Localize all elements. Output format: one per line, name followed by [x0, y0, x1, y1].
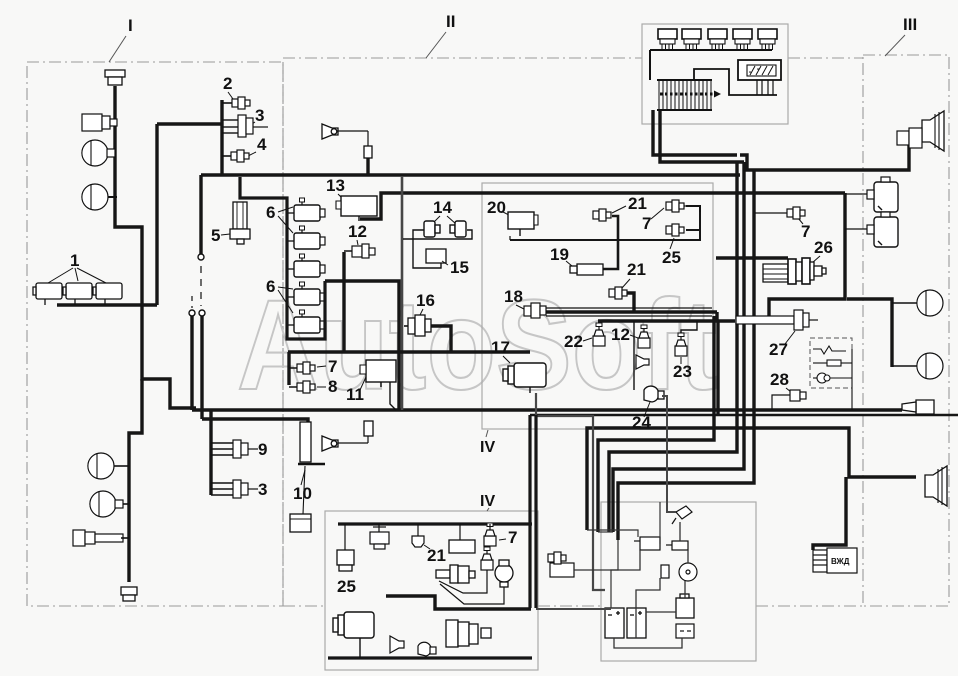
- component 17 motor: [503, 363, 546, 393]
- wire 21a drop: [602, 216, 618, 269]
- label 5: [211, 226, 230, 245]
- label 7 left: [289, 357, 337, 376]
- wire speaker feed long: [587, 428, 916, 530]
- wire 14 loop: [403, 230, 472, 268]
- fan wires: [439, 570, 504, 604]
- connector plug 1: [658, 29, 677, 50]
- region IV main box: [482, 183, 713, 429]
- top bus: [328, 415, 536, 658]
- connector dot x201: [198, 254, 204, 260]
- component 8 plug: [297, 381, 315, 393]
- component 28: [772, 390, 806, 410]
- wire 9-3 feed stub: [209, 410, 212, 495]
- connector b1: [370, 524, 389, 549]
- small rect: [661, 565, 669, 578]
- component 2 plug: [232, 97, 250, 109]
- stub wires 2,3,4: [222, 103, 232, 156]
- flasher top right b: [867, 212, 898, 247]
- connector plug 2: [682, 29, 701, 50]
- wire bottom bus b: [202, 419, 308, 422]
- ignition switch: [436, 565, 475, 583]
- svg-text:26: 26: [814, 238, 833, 257]
- component 21b: [609, 287, 627, 299]
- dotted arrow strip: [660, 91, 721, 98]
- component 12 sensor: [344, 244, 375, 258]
- speaker top right: [922, 111, 944, 151]
- wire comp234 vertical: [220, 100, 223, 175]
- wire bus2: [360, 193, 845, 219]
- component 25: [666, 224, 684, 236]
- lamp lower 1: [88, 453, 129, 479]
- relay legs: [757, 80, 773, 95]
- connector dots pair: [189, 310, 195, 316]
- svg-text:18: 18: [504, 287, 523, 306]
- svg-text:IV: IV: [480, 439, 495, 456]
- svg-text:21: 21: [628, 194, 647, 213]
- label 13: [326, 176, 345, 200]
- ignition coil: [666, 541, 688, 550]
- wire 78 loop: [287, 352, 290, 385]
- svg-text:III: III: [903, 15, 917, 34]
- round connector right: [495, 560, 513, 587]
- component 18: [524, 303, 546, 318]
- wire 25 link: [686, 229, 700, 231]
- component 21a: [593, 209, 611, 221]
- component 5 cylinder: [230, 202, 250, 244]
- svg-text:6: 6: [266, 277, 275, 296]
- wire 26 feed: [716, 256, 788, 259]
- label 22: [564, 332, 592, 351]
- flasher stubs: [845, 194, 867, 229]
- label 12: [348, 222, 367, 245]
- label 23: [673, 357, 692, 381]
- comb ribbon: [657, 80, 712, 110]
- wire x201 down: [199, 175, 202, 254]
- component 3 connector: [222, 115, 268, 137]
- svg-text:21: 21: [627, 260, 646, 279]
- speaker mid right: [892, 290, 943, 316]
- lamp mid right 2: [892, 353, 943, 379]
- wire relay loop: [325, 281, 399, 410]
- component 27: [736, 310, 818, 330]
- battery box: [601, 502, 756, 661]
- horn top: [322, 124, 372, 158]
- motor 1c: [93, 283, 122, 305]
- svg-text:II: II: [446, 12, 455, 31]
- label 7 right: [798, 218, 810, 241]
- svg-text:6: 6: [266, 203, 275, 222]
- svg-text:15: 15: [450, 258, 469, 277]
- wire bus y312: [546, 310, 717, 313]
- component 3 lower: [211, 480, 258, 498]
- component 16: [404, 315, 431, 336]
- label 24: [632, 402, 651, 432]
- wire speaker mid feed: [890, 304, 893, 367]
- component 18 bar: [546, 308, 712, 316]
- battery 1: [605, 608, 624, 638]
- svg-text:2: 2: [223, 74, 232, 93]
- svg-text:4: 4: [257, 135, 267, 154]
- component 4 plug: [231, 150, 249, 162]
- wire flasher drop: [769, 193, 845, 316]
- svg-text:28: 28: [770, 370, 789, 389]
- label 17: [491, 338, 510, 363]
- wire 24 drop: [633, 321, 635, 390]
- region III dashed box: [863, 55, 949, 606]
- svg-text:27: 27: [769, 340, 788, 359]
- battery wires: [574, 522, 688, 648]
- relay 6 a: [294, 198, 325, 221]
- relay 6 b: [294, 226, 325, 249]
- relay block in connector box: [738, 60, 781, 80]
- relay dashed box: [810, 338, 852, 388]
- wire connbox pair b: [660, 110, 744, 162]
- svg-text:3: 3: [255, 106, 264, 125]
- wire 21b link: [626, 293, 634, 312]
- connector top left: [105, 70, 125, 85]
- wire bottom bus a: [192, 408, 902, 411]
- motor 1b: [63, 283, 92, 305]
- svg-text:7: 7: [642, 214, 651, 233]
- wire bus y124: [157, 122, 222, 125]
- label 21 second: [622, 260, 646, 288]
- svg-text:22: 22: [564, 332, 583, 351]
- component 22: [593, 323, 605, 346]
- component 7 left plug: [297, 362, 315, 374]
- wire 16 link: [430, 326, 451, 352]
- wire vjd drop: [813, 477, 846, 550]
- svg-text:25: 25: [337, 577, 356, 596]
- label 19: [550, 245, 572, 266]
- svg-text:7: 7: [801, 222, 810, 241]
- wire 11 drop: [390, 382, 396, 410]
- label 2: [223, 74, 233, 99]
- svg-text:IV: IV: [480, 493, 495, 510]
- dashes below: [200, 266, 202, 306]
- label 1: [48, 251, 106, 283]
- relay small: [634, 537, 660, 550]
- component 14 connectors: [424, 221, 466, 237]
- component 25b: [337, 524, 354, 571]
- label 8: [289, 377, 337, 396]
- distributor: [679, 563, 697, 581]
- relay 6 c: [294, 254, 325, 277]
- label 21c: [424, 545, 446, 565]
- wire staircase 1: [609, 162, 737, 532]
- label 16: [416, 291, 435, 317]
- wire bottombus2 right: [530, 414, 958, 416]
- label 21 top: [612, 194, 647, 213]
- wire 7d: [489, 524, 491, 527]
- spark device top: [672, 506, 692, 524]
- wire staircase 4: [618, 170, 754, 540]
- wire 26 riser: [715, 312, 718, 321]
- component 24 horn: [644, 386, 664, 402]
- wire lamp feed left: [115, 86, 196, 408]
- component 7 right: [787, 207, 805, 219]
- relay hook wires: [287, 213, 294, 325]
- left device battery box: [548, 552, 574, 577]
- wire lamp mid: [847, 299, 892, 304]
- connector right low: [902, 400, 934, 414]
- wire x402 vertical gray: [401, 176, 404, 410]
- label 27: [769, 331, 795, 359]
- svg-text:ВЖД: ВЖД: [831, 557, 850, 566]
- svg-text:I: I: [128, 16, 133, 35]
- wire x718 vertical: [716, 321, 719, 414]
- battery box link wires: [536, 502, 676, 612]
- label 15: [442, 258, 469, 277]
- label 28: [770, 370, 791, 392]
- label IV upper: [480, 430, 495, 456]
- label 10: [293, 470, 312, 503]
- valve above switch: [481, 547, 493, 570]
- wire vertical x157: [155, 124, 158, 305]
- starter: [676, 594, 694, 618]
- svg-text:1: 1: [70, 251, 79, 270]
- svg-text:5: 5: [211, 226, 220, 245]
- bottom box: [676, 624, 694, 638]
- relay box innards: [813, 346, 852, 410]
- region I dashed box: [27, 62, 283, 606]
- component 13 box: [336, 196, 377, 221]
- svg-text:8: 8: [328, 377, 337, 396]
- relay 6 e: [294, 310, 325, 333]
- lamp lower 2: [90, 491, 129, 517]
- region IV bottom box: [325, 511, 538, 670]
- horn mid: [322, 421, 373, 451]
- wire lamp branch down-left: [129, 379, 142, 582]
- wire main bus1: [201, 173, 740, 176]
- svg-text:25: 25: [662, 248, 681, 267]
- component 15 box: [426, 249, 446, 263]
- component VJD connector: [813, 548, 857, 573]
- label 4: [248, 135, 267, 156]
- wire motor bus: [57, 303, 157, 306]
- component 9: [211, 440, 258, 458]
- component 7 regionIV: [666, 200, 684, 212]
- relay 6 d: [294, 282, 325, 305]
- label II: [426, 12, 455, 58]
- connector box top center: [642, 24, 788, 124]
- battery 2: [627, 608, 646, 638]
- ground terminal bottom left: [121, 587, 137, 601]
- component 21c cylinder: [449, 524, 475, 553]
- motor bottom IV: [333, 612, 374, 658]
- wire bus y321: [598, 319, 735, 322]
- label 7d: [499, 528, 517, 547]
- label 3: [247, 106, 264, 127]
- label 20: [487, 198, 509, 217]
- label 26: [812, 238, 833, 263]
- label 6 upper: [266, 203, 293, 233]
- svg-text:16: 16: [416, 291, 435, 310]
- svg-text:20: 20: [487, 198, 506, 217]
- connector plug 3: [708, 29, 727, 50]
- svg-text:12: 12: [611, 325, 630, 344]
- connector plug 5: [758, 29, 777, 50]
- lamp b1: [412, 524, 424, 547]
- component 19: [570, 264, 603, 275]
- component 7d: [484, 523, 496, 546]
- label 7 regionIV: [642, 208, 664, 233]
- wire 7 right feed: [755, 212, 787, 214]
- svg-text:13: 13: [326, 176, 345, 195]
- wire staircase 3: [598, 316, 714, 532]
- horn bottom IV: [418, 642, 436, 656]
- label 12 regionIV: [611, 325, 638, 344]
- component 10 sender: [290, 422, 325, 532]
- label III: [885, 15, 917, 56]
- headlamp 2: [82, 140, 115, 166]
- wire bus y351: [288, 350, 530, 353]
- component 20 box: [508, 212, 538, 240]
- label 6 lower: [266, 277, 293, 313]
- wire bus1 jog right: [740, 134, 909, 170]
- headlamp 3: [82, 184, 117, 210]
- label IV lower: [480, 493, 495, 511]
- main bar in connector box: [650, 50, 772, 80]
- label 18: [504, 287, 526, 310]
- motor 1a: [33, 283, 62, 305]
- svg-text:24: 24: [632, 413, 651, 432]
- thick bus inner: [386, 596, 531, 609]
- speaker bottom IV: [390, 636, 404, 653]
- svg-text:3: 3: [258, 480, 267, 499]
- wire 20 bus: [510, 206, 700, 240]
- label 25: [662, 238, 681, 267]
- component 23: [675, 333, 687, 356]
- relay frame wire: [240, 177, 325, 339]
- wire horn drop x368: [366, 157, 369, 175]
- svg-text:17: 17: [491, 338, 510, 357]
- label 14: [432, 198, 456, 224]
- wire pair left a: [190, 316, 193, 410]
- svg-text:7: 7: [328, 357, 337, 376]
- label I: [109, 16, 133, 62]
- connector plug 4: [733, 29, 752, 50]
- svg-text:9: 9: [258, 440, 267, 459]
- step wire in connector box: [694, 69, 777, 95]
- flasher top right a: [867, 177, 898, 212]
- wire 23 link: [681, 321, 697, 334]
- component speaker IV: [636, 355, 649, 369]
- wire staircase 2: [613, 162, 744, 532]
- region II dashed box: [283, 58, 863, 606]
- svg-text:23: 23: [673, 362, 692, 381]
- svg-text:10: 10: [293, 484, 312, 503]
- fog lamp 1: [82, 114, 117, 131]
- label 11: [346, 377, 366, 404]
- lamp lower 3: [73, 530, 129, 546]
- wire 7 to right: [684, 206, 700, 212]
- wire 12 drop: [342, 252, 345, 351]
- svg-text:7: 7: [508, 528, 517, 547]
- wire 17 drop gray: [536, 393, 605, 590]
- wire connbox pair a: [653, 110, 737, 155]
- component 11 box: [360, 360, 396, 387]
- svg-text:12: 12: [348, 222, 367, 241]
- wire pair left b: [200, 316, 203, 419]
- component 12b: [638, 325, 650, 348]
- component 26: [763, 258, 826, 284]
- svg-text:14: 14: [433, 198, 452, 217]
- device bottom IV: [446, 620, 491, 647]
